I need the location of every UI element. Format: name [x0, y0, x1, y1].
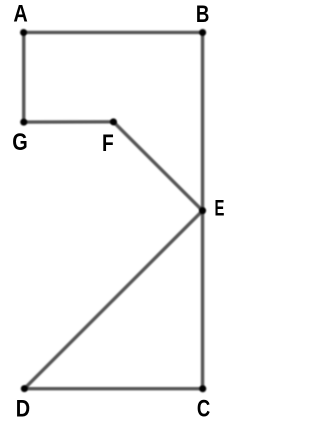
wire segment DC: [24, 387, 202, 390]
label F: [102, 129, 114, 157]
label D: [16, 395, 30, 422]
label E: [215, 197, 225, 222]
node F: [110, 118, 117, 125]
svg-text:B: B: [196, 1, 210, 28]
wire segment GF: [24, 120, 114, 124]
svg-text:D: D: [16, 395, 30, 422]
svg-text:E: E: [215, 197, 225, 222]
label C: [197, 395, 210, 422]
node D: [21, 385, 28, 392]
label B: [196, 1, 210, 28]
wire segment FE: [113, 122, 202, 211]
node B: [199, 29, 206, 36]
node G: [20, 119, 27, 126]
label A: [13, 0, 27, 27]
wire segment ED: [24, 211, 202, 389]
svg-text:C: C: [197, 395, 210, 422]
svg-text:G: G: [12, 128, 27, 155]
node A: [20, 29, 27, 36]
svg-text:A: A: [13, 0, 27, 27]
node C: [199, 385, 206, 392]
wire segment AB: [24, 31, 203, 34]
node E: [199, 207, 206, 214]
wire segment BC: [201, 32, 204, 388]
wire segment AG: [22, 32, 25, 122]
label G: [12, 128, 27, 155]
svg-text:F: F: [102, 129, 114, 157]
